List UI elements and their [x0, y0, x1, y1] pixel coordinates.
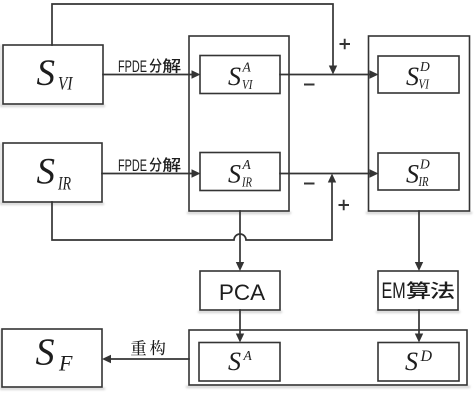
svg-text:IR: IR: [241, 175, 252, 190]
minus sign: row 2: [304, 183, 315, 185]
arrowhead: into PCA box: [236, 262, 244, 271]
plus sign: row 1 adder: [340, 39, 351, 50]
box: S_VI^A: [200, 56, 280, 94]
svg-text:D: D: [420, 348, 433, 365]
label: reconstruction (chong gou): [131, 340, 146, 355]
arrowhead: into S_VI^D box: [370, 70, 379, 78]
wire: S_IR to FPDE decomposition (row 2): [102, 173, 193, 175]
wire: S_VI to FPDE decomposition (row 1): [103, 74, 193, 76]
box: fused detail S^D: [378, 343, 459, 382]
svg-text:S: S: [228, 62, 241, 91]
svg-text:FPDE: FPDE: [118, 57, 147, 76]
svg-text:IR: IR: [57, 174, 71, 195]
svg-text:VI: VI: [242, 77, 254, 92]
box: PCA: [200, 271, 280, 310]
arrowhead: into S_IR^A box: [192, 169, 201, 177]
box: fused approximation S^A: [199, 343, 280, 382]
arrowhead: into S^A box: [236, 334, 244, 343]
label: decomposition (fen jie), row 2: [150, 157, 162, 171]
svg-text:A: A: [243, 348, 253, 363]
box: approximation-layer group (outer): [189, 36, 289, 211]
box: infrared image S_IR: [3, 143, 102, 202]
svg-text:A: A: [242, 157, 252, 172]
arrowhead: into S^D box: [415, 334, 423, 343]
svg-text:S: S: [228, 160, 241, 189]
wire: PCA down to fused S^A: [239, 310, 241, 335]
box: detail-layer group (outer): [369, 36, 470, 211]
svg-text:S: S: [405, 347, 418, 376]
arrowhead: into S_IR^D box: [370, 169, 379, 177]
wire: detail group down to EM algorithm: [418, 211, 420, 263]
wire: reconstruction output to S_F: [111, 358, 189, 360]
box: fused image S_F: [2, 329, 102, 387]
box: S_VI^D: [378, 56, 459, 93]
svg-text:A: A: [242, 60, 252, 75]
wire: S_IR^A to S_IR^D (row 2 difference line): [280, 173, 371, 175]
svg-text:EM: EM: [382, 278, 406, 303]
arrowhead: feedback onto row-1 line: [329, 66, 337, 75]
arrowhead: feedback onto row-2 line: [328, 174, 336, 183]
svg-text:D: D: [419, 59, 430, 74]
svg-text:FPDE: FPDE: [118, 156, 147, 175]
wire: EM down to fused S^D: [418, 310, 420, 335]
arrowhead: into S_F box: [102, 355, 111, 363]
plus sign: row 2 adder: [339, 200, 350, 211]
box: EM algorithm: [378, 271, 458, 310]
box: S_IR^D: [378, 153, 459, 190]
label: decomposition (fen jie), row 1: [150, 58, 162, 72]
svg-text:F: F: [58, 351, 73, 376]
svg-text:D: D: [419, 157, 430, 172]
svg-text:S: S: [36, 332, 55, 374]
box: S_IR^A: [200, 153, 280, 191]
box: visible image S_VI: [3, 45, 103, 104]
svg-text:S: S: [406, 62, 419, 91]
arrowhead: into S_VI^A box: [192, 70, 201, 78]
svg-text:S: S: [37, 53, 56, 94]
wire: approximation group down to PCA: [239, 211, 241, 263]
arrowhead: into EM box: [415, 262, 423, 271]
svg-text:S: S: [37, 152, 56, 193]
wire: S_VI top feedback to row-1 adder: [52, 4, 333, 67]
svg-text:PCA: PCA: [219, 280, 265, 305]
svg-text:S: S: [228, 347, 241, 376]
label: algorithm (suan fa): [406, 281, 429, 299]
box: fusion group (outer bottom): [189, 330, 467, 385]
svg-text:S: S: [406, 160, 419, 189]
svg-text:VI: VI: [419, 77, 431, 92]
wire: S_VI^A to S_VI^D (row 1 difference line): [280, 74, 371, 76]
svg-text:VI: VI: [58, 74, 74, 95]
minus sign: row 1: [304, 84, 315, 86]
svg-text:IR: IR: [418, 174, 429, 189]
wire: S_IR bottom feedback to row-2 adder, hops over centre vertical: [52, 181, 332, 240]
